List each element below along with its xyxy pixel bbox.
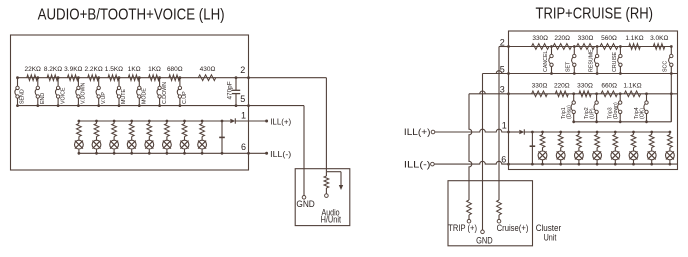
switch Trip3 (Down)	[608, 92, 622, 123]
svg-text:(UP): (UP)	[589, 108, 595, 119]
wire: trip switch common rail	[574, 94, 672, 122]
LED branch 6 (RH illumination)	[629, 131, 638, 166]
svg-text:(Disp): (Disp)	[567, 105, 573, 119]
svg-text:2.2KΩ: 2.2KΩ	[84, 66, 102, 73]
resistor 220ohm (RH trip ladder)	[554, 82, 570, 96]
svg-text:3.9KΩ: 3.9KΩ	[64, 66, 82, 73]
resistor (Audio H/Unit pull-up)	[324, 172, 329, 198]
LED branch 8 (LH illumination)	[198, 120, 207, 155]
switch SET	[566, 45, 576, 75]
resistor 3.0Kohm (RH cruise ladder)	[650, 35, 668, 49]
LED branch 2 (LH illumination)	[92, 120, 101, 155]
svg-text:ILL(-): ILL(-)	[270, 150, 291, 159]
switch END	[35, 76, 46, 107]
pin 6 (LH)	[241, 142, 246, 152]
svg-text:1.5KΩ: 1.5KΩ	[105, 66, 123, 73]
switch MODE	[137, 76, 148, 107]
switch Trip1 (Disp)	[561, 92, 575, 123]
svg-text:660Ω: 660Ω	[601, 82, 617, 89]
svg-text:VOICE: VOICE	[60, 87, 66, 104]
label ILL(-) (RH)	[404, 159, 431, 169]
svg-text:680Ω: 680Ω	[167, 66, 183, 73]
switch V.UP	[96, 76, 107, 107]
pin 1 (LH)	[241, 111, 246, 121]
svg-text:GND: GND	[296, 199, 314, 210]
label ILL(-) (LH)	[270, 150, 291, 159]
resistor 3.9Kohm (LH ladder)	[64, 66, 82, 81]
LED branch 3 (LH illumination)	[110, 120, 119, 155]
pin 2 (LH)	[240, 65, 245, 75]
svg-text:H/Unit: H/Unit	[321, 215, 342, 225]
wire: line 6 rail (RH)	[507, 163, 677, 166]
svg-text:CANCEL: CANCEL	[543, 50, 549, 72]
resistor 330ohm (RH cruise ladder)	[577, 35, 595, 49]
switch assembly box (LH)	[11, 35, 249, 170]
svg-text:SEND: SEND	[20, 89, 26, 104]
switch Trip4 (OK)	[634, 92, 648, 123]
wire: line 1 rail (RH)	[507, 131, 670, 134]
svg-text:2: 2	[500, 37, 505, 47]
LED branch 3 (RH illumination)	[575, 131, 584, 166]
resistor (TRIP pull-up)	[467, 200, 472, 223]
resistor 560ohm (RH cruise ladder)	[600, 35, 618, 49]
label TRIP (+)	[448, 223, 477, 233]
svg-text:1KΩ: 1KΩ	[128, 66, 141, 73]
title: TRIP+CRUISE (RH)	[536, 5, 654, 22]
wire: line 6 ILL(-) (LH)	[79, 152, 268, 155]
LED branch 7 (LH illumination)	[180, 120, 189, 155]
capacitor 470pF	[227, 76, 241, 107]
resistor 330ohm (RH trip ladder)	[577, 82, 593, 96]
wire: ILL(+) to pin 1	[435, 129, 509, 132]
wire: pin 2 rail (RH cruise ladder)	[507, 45, 671, 48]
terminal ILL(-) (RH)	[431, 162, 435, 166]
svg-text:TRIP+CRUISE (RH): TRIP+CRUISE (RH)	[536, 5, 654, 22]
svg-text:V.UP: V.UP	[101, 92, 107, 104]
LED branch 4 (RH illumination)	[593, 131, 602, 166]
resistor (Cruise pull-up)	[497, 200, 502, 223]
resistor 430ohm (LH ladder)	[198, 66, 216, 81]
switch VOICE	[55, 76, 66, 107]
switch V.DOWN	[76, 76, 87, 107]
svg-text:MUTE: MUTE	[121, 89, 127, 104]
svg-text:470pF: 470pF	[227, 81, 234, 99]
wire: pin 3 rail (RH trip ladder)	[507, 92, 677, 95]
svg-text:GND: GND	[476, 235, 493, 245]
svg-text:ILL(+): ILL(+)	[270, 118, 291, 127]
switch Trip2 (UP)	[584, 92, 598, 123]
switch C.DOWN	[157, 76, 168, 107]
svg-text:1: 1	[502, 121, 507, 131]
svg-text:3.0KΩ: 3.0KΩ	[650, 35, 668, 42]
pin 5 (LH)	[240, 94, 245, 104]
resistor 8.2Kohm (LH ladder)	[44, 66, 62, 81]
svg-text:C.DOWN: C.DOWN	[162, 82, 168, 104]
LED branch 8 (RH illumination)	[666, 131, 675, 166]
svg-text:560Ω: 560Ω	[601, 35, 617, 42]
wire: pin 2 rail (ladder top, LH)	[18, 76, 250, 79]
svg-text:220Ω: 220Ω	[554, 82, 570, 89]
switch C.UP	[177, 76, 188, 107]
wire: pin 2 to Audio H/Unit	[249, 78, 327, 172]
svg-text:330Ω: 330Ω	[577, 82, 593, 89]
svg-text:330Ω: 330Ω	[532, 35, 548, 42]
arrow (signal into Audio H/Unit)	[326, 172, 343, 190]
svg-text:SCC: SCC	[663, 61, 669, 72]
terminal ILL(+) (RH)	[431, 130, 435, 134]
diode D1 (LH ILL+)	[230, 118, 235, 123]
switch RESUME	[589, 45, 599, 75]
svg-text:(OK): (OK)	[639, 108, 645, 119]
LED branch 1 (RH illumination)	[538, 131, 547, 166]
LED branch 4 (LH illumination)	[127, 120, 136, 155]
LED branch 5 (LH illumination)	[145, 120, 154, 155]
svg-text:TRIP (+): TRIP (+)	[448, 223, 477, 233]
svg-text:220Ω: 220Ω	[554, 35, 570, 42]
wire: pin 5 rail (RH)	[507, 72, 677, 75]
LED branch 5 (RH illumination)	[611, 131, 620, 166]
svg-text:Unit: Unit	[544, 232, 557, 242]
svg-text:CRUISE: CRUISE	[612, 52, 618, 72]
switch MUTE	[116, 76, 127, 107]
resistor 680ohm (LH ladder)	[167, 66, 183, 81]
svg-text:1: 1	[241, 111, 246, 121]
switch CANCEL	[543, 45, 553, 75]
terminal GND (Audio)	[296, 196, 314, 211]
pin 3 (RH)	[500, 85, 505, 95]
svg-text:8.2KΩ: 8.2KΩ	[44, 66, 62, 73]
switch SCC	[663, 45, 673, 122]
svg-text:5: 5	[240, 94, 245, 104]
LED branch 6 (LH illumination)	[163, 120, 172, 155]
svg-text:ILL(+): ILL(+)	[404, 127, 431, 137]
capacitor (LH ILL filter)	[219, 120, 225, 155]
wire: pin 5 to Audio GND	[249, 106, 305, 196]
wire: pin 2 to Cruise(+) (vertical)	[499, 47, 509, 201]
wire: pin 5 rail (ladder bottom, LH)	[18, 104, 250, 107]
svg-text:C.UP: C.UP	[182, 91, 188, 104]
pin 1 (RH)	[502, 121, 507, 131]
connector box Cluster Unit	[448, 181, 533, 246]
svg-text:1KΩ: 1KΩ	[148, 66, 161, 73]
LED branch 2 (RH illumination)	[556, 131, 565, 166]
pin 6 (RH)	[501, 154, 506, 164]
svg-text:SET: SET	[566, 61, 572, 72]
resistor 22Kohm (LH ladder)	[24, 66, 41, 81]
switch CRUISE	[612, 45, 622, 75]
connector box Audio H/Unit	[295, 169, 350, 226]
wire: ILL(-) to pin 6	[434, 161, 508, 164]
resistor 1.1Kohm (RH cruise ladder)	[625, 35, 643, 49]
resistor 220ohm (RH cruise ladder)	[553, 35, 572, 49]
svg-text:3: 3	[500, 85, 505, 95]
diode D2 (RH ILL+)	[519, 129, 524, 134]
svg-text:AUDIO+B/TOOTH+VOICE (LH): AUDIO+B/TOOTH+VOICE (LH)	[38, 6, 225, 23]
svg-text:ILL(-): ILL(-)	[404, 159, 431, 169]
svg-text:RESUME: RESUME	[589, 49, 595, 72]
switch SEND	[15, 76, 26, 107]
label ILL(+) (RH)	[404, 127, 431, 137]
resistor 1.5Kohm (LH ladder)	[105, 66, 123, 81]
label Cruise(+)	[497, 223, 529, 233]
resistor 1.1Kohm (RH trip ladder)	[623, 82, 641, 96]
resistor 1Kohm (LH ladder)	[148, 66, 161, 81]
wire: pin 5 to cluster GND	[483, 71, 509, 230]
capacitor (RH ILL filter)	[530, 131, 536, 166]
svg-text:6: 6	[241, 142, 246, 152]
svg-text:V.DOWN: V.DOWN	[81, 83, 87, 104]
terminal GND (Cluster)	[481, 230, 485, 234]
LED branch 1 (LH illumination)	[75, 120, 84, 155]
svg-text:1.1KΩ: 1.1KΩ	[623, 82, 641, 89]
svg-text:22KΩ: 22KΩ	[24, 66, 41, 73]
svg-text:330Ω: 330Ω	[578, 35, 594, 42]
switch assembly box (RH)	[509, 31, 678, 170]
label GND (Cluster)	[476, 235, 493, 245]
resistor 660ohm (RH trip ladder)	[601, 82, 618, 96]
svg-text:END: END	[40, 93, 46, 104]
title: AUDIO+B/TOOTH+VOICE (LH)	[38, 6, 225, 23]
wire: line 1 ILL(+) (LH)	[79, 120, 268, 123]
svg-text:(Down): (Down)	[613, 102, 619, 119]
svg-text:330Ω: 330Ω	[532, 82, 548, 89]
svg-text:MODE: MODE	[142, 88, 148, 104]
svg-text:2: 2	[240, 65, 245, 75]
pin 5 (RH)	[500, 64, 505, 74]
resistor 330ohm (RH trip ladder)	[532, 82, 548, 96]
label Audio H/Unit	[321, 207, 342, 224]
label Cluster Unit	[536, 223, 562, 242]
label ILL(+) (LH)	[270, 118, 291, 127]
resistor 330ohm (RH cruise ladder)	[532, 35, 550, 49]
svg-text:1.1KΩ: 1.1KΩ	[625, 35, 643, 42]
resistor 1Kohm (LH ladder)	[128, 66, 141, 81]
svg-text:Cruise(+): Cruise(+)	[497, 223, 529, 233]
wire: pin 3 to TRIP(+)	[469, 91, 509, 200]
resistor 2.2Kohm (LH ladder)	[84, 66, 102, 81]
pin 2 (RH)	[500, 37, 505, 47]
LED branch 7 (RH illumination)	[647, 131, 656, 166]
svg-text:430Ω: 430Ω	[200, 66, 216, 73]
